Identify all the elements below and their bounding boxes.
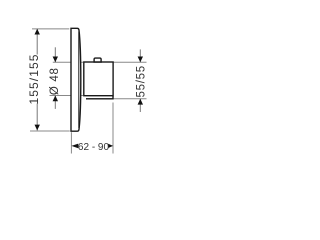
dimension line 155/155 (36, 29, 38, 131)
arrow up onto knob bottom, diameter 48 (53, 96, 58, 102)
dimension line lower segment 55/55 (139, 99, 141, 112)
escutcheon plate profile (71, 28, 81, 131)
label 155/155 (27, 53, 41, 104)
arrow down onto knob top, diameter 48 (53, 57, 58, 63)
knob body (84, 62, 113, 96)
extension line top of 55/55 (113, 61, 147, 63)
arrow up 155/155 (35, 29, 40, 35)
sleeve step below knob (86, 96, 113, 99)
safety stop tab on knob (94, 58, 101, 62)
label diameter 48 (49, 67, 61, 95)
arrow down 55/55 (138, 57, 143, 63)
arrow left 62 - 90 (71, 144, 78, 149)
svg-text:155/155: 155/155 (27, 53, 41, 104)
arrow down 155/155 (35, 125, 40, 131)
extension line top of 155/155 (32, 28, 69, 30)
plate face inner line (78, 32, 80, 129)
dimension line lower segment diameter 48 (54, 96, 56, 109)
label 55/55 (135, 65, 147, 97)
extension line top of diameter 48 (53, 61, 83, 63)
extension line bottom of diameter 48 (50, 95, 84, 97)
dimension line upper segment 55/55 (139, 49, 141, 62)
extension line right of 62 - 90 (112, 103, 114, 154)
svg-text:Ø 48: Ø 48 (49, 67, 61, 95)
arrow up 55/55 (138, 99, 143, 105)
svg-text:55/55: 55/55 (135, 65, 147, 97)
extension line bottom of 155/155 (30, 130, 70, 132)
extension line bottom of 55/55 (86, 98, 147, 100)
svg-text:62 - 90: 62 - 90 (78, 142, 110, 153)
dimension line upper segment diameter 48 (54, 47, 56, 62)
extension line left of 62 - 90 (70, 132, 72, 153)
arrow right 62 - 90 (108, 144, 113, 148)
